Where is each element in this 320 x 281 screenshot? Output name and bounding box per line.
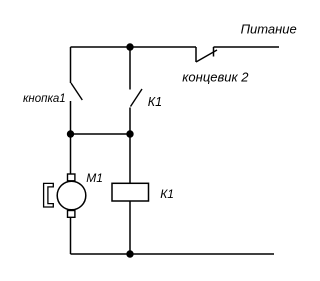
switch K1 contact blade [131, 89, 143, 107]
wire: bottom horizontal bus [71, 253, 275, 255]
node: junction dot left cross link [67, 130, 74, 137]
motor M1 stator bracket [44, 183, 54, 207]
svg-text:кнопка1: кнопка1 [23, 93, 66, 105]
relay coil K1 rectangle [112, 183, 149, 201]
wire: coil bottom lead [129, 201, 131, 254]
wire: left vertical middle segment [70, 101, 72, 174]
node: junction dot top (K1 branch) [126, 43, 133, 50]
wire: middle vertical (K1 contact to coil) [129, 108, 131, 184]
wire: motor bottom lead [70, 217, 72, 254]
motor M1 body circle [57, 181, 86, 210]
svg-text:М1: М1 [86, 171, 103, 185]
motor M1 top brush square [68, 174, 75, 181]
svg-text:Питание: Питание [241, 22, 297, 37]
wire: top right to supply [214, 46, 280, 48]
svg-text:концевик 2: концевик 2 [182, 70, 249, 85]
switch SB1 (кнопка1) blade [71, 83, 82, 100]
wire: left vertical upper segment [70, 47, 72, 83]
svg-text:К1: К1 [160, 187, 174, 201]
switch SQ2 (концевик 2) right contact tick [213, 47, 215, 57]
switch SQ2 (концевик 2) blade [196, 50, 217, 62]
wire: top horizontal bus [71, 46, 197, 48]
node: junction dot right cross link [126, 130, 133, 137]
node: junction dot bottom [126, 250, 133, 257]
svg-text:К1: К1 [148, 95, 162, 109]
motor M1 bottom brush square [68, 211, 75, 218]
wire: middle vertical upper (junction to K1 contact) [129, 47, 131, 90]
wire: cross link between columns [71, 133, 131, 135]
switch SQ2 (концевик 2) left lead drop [195, 47, 197, 62]
